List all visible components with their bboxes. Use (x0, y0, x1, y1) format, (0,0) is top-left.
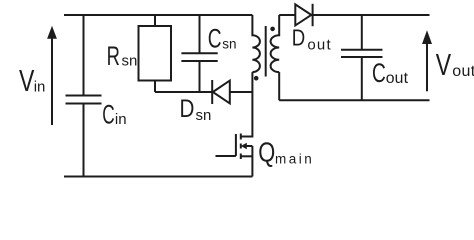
Vin arrow shaft (51, 38, 53, 125)
resistor R_sn (139, 26, 172, 81)
wire: bottom input rail (64, 176, 252, 178)
wire: Csn top stub (199, 15, 201, 53)
wire: output top rail left (279, 14, 295, 16)
wire: output top rail right (311, 14, 429, 16)
svg-text:D: D (292, 26, 305, 51)
svg-text:in: in (34, 79, 46, 96)
label Cin (102, 100, 126, 130)
svg-text:out: out (307, 36, 331, 53)
transformer primary winding (252, 15, 260, 72)
label Dsn (180, 94, 212, 124)
svg-text:C: C (208, 23, 222, 53)
wire: Cout bottom stub (361, 57, 363, 100)
Vin arrowhead (47, 26, 57, 39)
wire: output bottom rail (279, 99, 429, 101)
wire: secondary bottom stub (278, 72, 280, 100)
svg-text:sn: sn (196, 107, 212, 124)
label Vout (436, 48, 474, 82)
MOSFET Q_main source stub (241, 155, 253, 157)
svg-text:C: C (372, 58, 386, 88)
MOSFET Q_main gate bar (235, 134, 237, 156)
svg-text:V: V (19, 64, 34, 98)
wire: Rsn top stub (154, 15, 156, 26)
label Cout (372, 58, 409, 88)
transformer primary polarity dot (254, 76, 259, 81)
svg-text:Q: Q (258, 138, 275, 168)
capacitor C_sn (181, 53, 217, 61)
wire: snubber bottom wire right (230, 91, 253, 93)
MOSFET Q_main drain stub (241, 136, 253, 138)
transformer core (265, 26, 267, 77)
wire: Cout top stub (361, 15, 363, 50)
diode D_out triangle (295, 4, 311, 25)
diode D_out cathode bar (312, 4, 314, 26)
svg-text:in: in (115, 111, 127, 128)
Vout arrow shaft (426, 44, 428, 92)
svg-text:V: V (436, 48, 451, 82)
label Csn (208, 23, 237, 53)
wire: Rsn bottom stub (154, 81, 156, 93)
wire: Cin branch lower (83, 104, 85, 177)
diode D_sn triangle (213, 81, 230, 104)
transformer secondary winding (271, 15, 280, 72)
wire: Csn bottom stub (199, 61, 201, 92)
capacitor C_in (66, 96, 102, 104)
MOSFET Q_main body stub (246, 145, 252, 147)
transformer secondary polarity dot (270, 27, 275, 32)
wire: left input terminal / Cin branch upper (83, 15, 85, 96)
svg-text:sn: sn (122, 53, 138, 70)
wire: snubber bottom wire left (155, 91, 212, 93)
svg-text:out: out (452, 63, 474, 80)
svg-text:D: D (180, 94, 195, 122)
MOSFET Q_main gate lead (216, 155, 236, 157)
svg-text:main: main (275, 151, 314, 166)
MOSFET Q_main body arrowhead (241, 143, 247, 150)
svg-text:out: out (386, 70, 409, 87)
label Dout (292, 26, 332, 54)
diode D_sn cathode bar (211, 80, 213, 104)
label Rsn (107, 41, 138, 71)
wire: MOSFET source to bottom rail (251, 146, 253, 177)
MOSFET Q_main channel ticks (240, 134, 242, 160)
svg-text:R: R (107, 41, 120, 71)
svg-text:C: C (102, 100, 114, 130)
wire: top input rail (64, 14, 252, 16)
label Qmain (258, 138, 314, 168)
label Vin (19, 64, 45, 98)
Vout arrowhead (422, 30, 432, 44)
svg-text:sn: sn (222, 37, 236, 52)
wire: primary bottom to MOSFET drain (241, 72, 253, 136)
capacitor C_out (341, 50, 383, 57)
